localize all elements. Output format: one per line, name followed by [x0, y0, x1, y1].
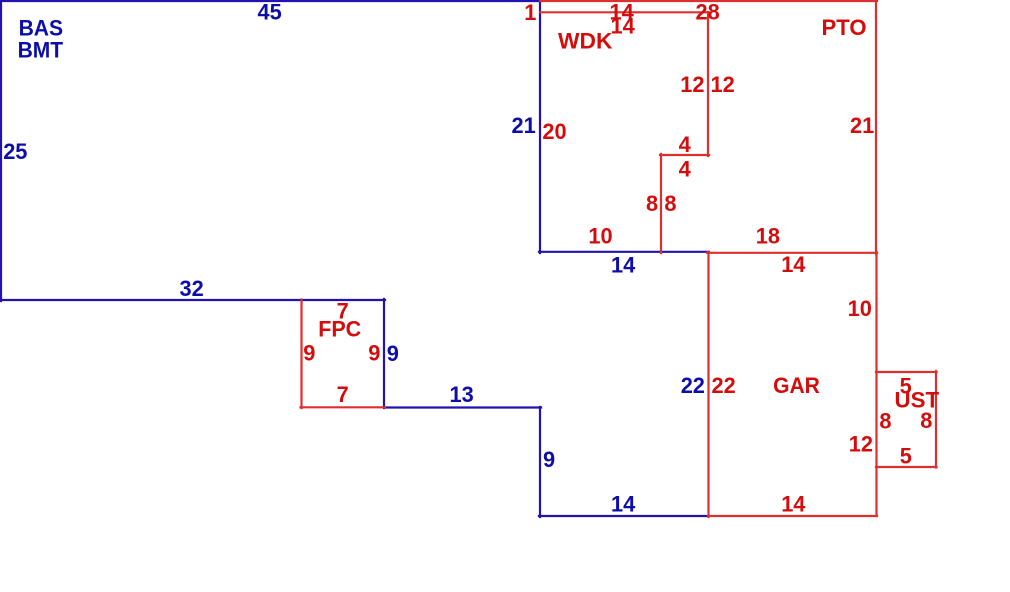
svg-text:14: 14 — [611, 491, 635, 516]
wire BAS horizontal-14 edge at y252 — [539, 251, 709, 253]
wire BAS bottom-14 edge — [539, 515, 709, 517]
wire WDK step-4 edge — [660, 154, 709, 156]
wire UST top edge — [876, 371, 937, 373]
svg-text:9: 9 — [368, 340, 380, 365]
svg-text:14: 14 — [611, 252, 635, 277]
svg-text:14: 14 — [611, 13, 635, 38]
svg-text:9: 9 — [303, 340, 315, 365]
svg-text:25: 25 — [3, 139, 27, 164]
svg-text:20: 20 — [542, 119, 566, 144]
svg-text:8: 8 — [646, 191, 658, 216]
wire GAR right edge — [875, 252, 877, 516]
svg-text:12: 12 — [849, 431, 873, 456]
svg-text:18: 18 — [756, 223, 780, 248]
svg-text:5: 5 — [900, 444, 912, 469]
svg-text:4: 4 — [679, 132, 691, 157]
svg-text:14: 14 — [781, 491, 805, 516]
wire GAR bottom edge — [708, 515, 877, 517]
svg-text:7: 7 — [337, 382, 349, 407]
svg-text:12: 12 — [711, 72, 735, 97]
svg-text:UST: UST — [895, 388, 940, 413]
wire FPC bottom edge — [301, 406, 386, 408]
svg-text:FPC: FPC — [318, 317, 361, 342]
wire BAS vertical-9 edge at x384 — [383, 299, 385, 408]
svg-text:9: 9 — [543, 447, 555, 472]
wire BAS horizontal-13 edge — [384, 406, 541, 408]
wire WDK step-8 edge — [660, 154, 662, 253]
wire GAR left edge — [707, 252, 709, 517]
svg-text:32: 32 — [180, 276, 204, 301]
svg-text:GAR: GAR — [773, 373, 820, 398]
wire BAS vertical-9 edge at x540 — [539, 407, 541, 517]
svg-text:PTO: PTO — [822, 15, 867, 40]
wire PTO top edge — [540, 0, 877, 2]
svg-text:4: 4 — [679, 157, 691, 182]
svg-text:45: 45 — [258, 0, 282, 25]
svg-text:1: 1 — [524, 0, 536, 25]
svg-text:22: 22 — [681, 373, 705, 398]
svg-text:10: 10 — [588, 223, 612, 248]
svg-text:28: 28 — [696, 0, 720, 25]
svg-text:22: 22 — [712, 373, 736, 398]
svg-text:9: 9 — [387, 341, 399, 366]
svg-text:12: 12 — [680, 72, 704, 97]
wire UST bottom edge — [876, 466, 937, 468]
svg-text:8: 8 — [664, 191, 676, 216]
svg-text:WDK: WDK — [558, 29, 613, 54]
wire WDK top edge — [540, 11, 709, 13]
svg-text:13: 13 — [450, 382, 474, 407]
svg-text:BMT: BMT — [18, 38, 64, 63]
wire BAS left edge — [0, 0, 2, 301]
svg-text:14: 14 — [781, 252, 805, 277]
wire PTO right edge — [875, 0, 877, 254]
svg-text:10: 10 — [848, 296, 872, 321]
wire BAS top edge — [0, 0, 541, 2]
svg-text:8: 8 — [920, 408, 932, 433]
wire BAS right-21 edge at x540 — [539, 0, 541, 253]
wire BAS bottom-32 edge — [0, 299, 385, 301]
svg-text:21: 21 — [850, 113, 874, 138]
wire GAR top edge — [707, 252, 877, 254]
wire WDK right upper edge — [707, 12, 709, 156]
wire FPC left edge — [300, 300, 302, 409]
svg-text:8: 8 — [879, 408, 891, 433]
wire UST right edge — [935, 371, 937, 468]
svg-text:21: 21 — [512, 113, 536, 138]
